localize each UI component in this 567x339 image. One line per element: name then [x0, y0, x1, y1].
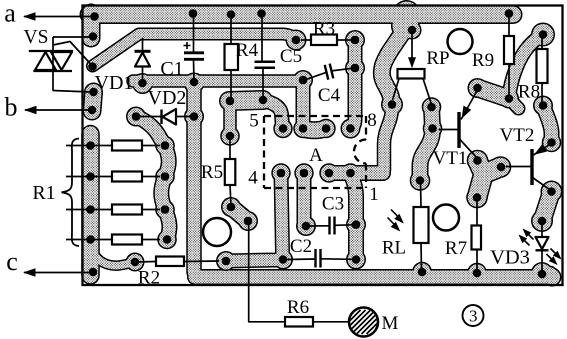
svg-text:R2: R2	[138, 268, 160, 289]
resistor R5	[229, 137, 231, 159]
svg-text:C4: C4	[318, 85, 341, 106]
resistor R4	[230, 14, 232, 44]
mounting hole	[448, 29, 473, 54]
svg-text:C3: C3	[322, 194, 344, 215]
svg-text:VT2: VT2	[500, 125, 535, 146]
svg-text:R8: R8	[518, 82, 540, 103]
photoresistor RL	[420, 182, 423, 207]
svg-text:1: 1	[369, 184, 379, 205]
capacitor C4 (tilted)	[306, 72, 327, 79]
wire RP-right / VT1-base / RL-top trace	[420, 107, 433, 181]
transistor VT2	[534, 144, 552, 156]
diode VD1	[142, 38, 144, 51]
wire IC pin4 down to C2/R2	[226, 173, 283, 261]
svg-text:8: 8	[367, 110, 377, 131]
svg-text:VD2: VD2	[148, 87, 187, 109]
wire VD2-anode / R1 right chain trace	[136, 117, 169, 240]
capacitor C3	[308, 225, 330, 227]
mounting hole	[433, 205, 459, 231]
resistor R1 element 1	[66, 145, 112, 147]
wire R8-bottom to VT2-collector trace	[543, 106, 552, 143]
terminal c wire & arrow	[24, 272, 93, 274]
svg-text:C5: C5	[280, 46, 302, 67]
op-amp/timer IC A dashed outline	[263, 116, 265, 188]
svg-text:R5: R5	[201, 162, 223, 183]
wire b-terminal pad blob	[92, 92, 94, 111]
svg-text:R7: R7	[445, 238, 467, 259]
svg-text:R6: R6	[287, 297, 309, 318]
resistor R6	[285, 317, 313, 327]
svg-text:R1: R1	[32, 182, 55, 204]
potentiometer RP	[411, 31, 413, 65]
terminal b wire & arrow	[25, 109, 92, 111]
svg-text:C2: C2	[290, 236, 312, 257]
svg-text:b: b	[5, 93, 18, 122]
svg-text:4: 4	[248, 168, 258, 189]
resistor R1 element 2	[66, 176, 112, 178]
svg-text:R3: R3	[313, 19, 335, 40]
wire VT2-emitter / VD3 blob	[542, 192, 552, 222]
resistor R1 element 3	[66, 209, 112, 211]
triac VS	[29, 50, 73, 52]
mounting hole	[203, 218, 231, 246]
svg-text:R4: R4	[236, 40, 259, 61]
wire left R1 bus + hook to R2	[81, 134, 100, 276]
capacitor C5	[261, 13, 263, 62]
solder pads	[90, 12, 99, 21]
resistor R9	[508, 15, 510, 36]
svg-text:RP: RP	[426, 48, 449, 69]
svg-text:C1: C1	[160, 58, 183, 80]
svg-text:3: 3	[469, 307, 478, 326]
brace for R1 group	[62, 139, 80, 247]
transistor VT1	[457, 112, 460, 148]
capacitor C2	[286, 258, 316, 261]
svg-text:M: M	[382, 313, 399, 334]
wire R3-right vertical to IC pin 8	[351, 40, 355, 129]
LED VD3	[541, 222, 543, 237]
diode VD2	[139, 116, 190, 118]
svg-text:a: a	[4, 0, 16, 28]
resistor R8	[541, 36, 543, 49]
svg-text:VS: VS	[24, 27, 49, 48]
wire third bus + ground net (VD1 row, long vertical, bottom bus)	[133, 80, 303, 81]
svg-text:VT1: VT1	[433, 148, 468, 169]
wire top supply bus + S power trace net	[89, 5, 513, 24]
wire R9-bottom / VT1-emitter / R8-top net	[478, 88, 510, 99]
wire R5-bottom diagonal blob	[231, 207, 248, 221]
svg-text:VD1: VD1	[95, 72, 134, 94]
PCB board border	[83, 6, 563, 286]
wire from R5 pad down to R6	[249, 222, 285, 322]
wire VT1-collector Y blob	[477, 161, 501, 198]
wire VS-gate diagonal + second bus trace	[93, 34, 297, 66]
terminal a wire & arrow	[24, 16, 94, 18]
resistor R1 element 4	[66, 239, 112, 241]
svg-text:VD3: VD3	[490, 247, 530, 269]
motor M	[349, 308, 378, 337]
capacitor C1 (electrolytic)	[193, 13, 195, 52]
svg-text:R9: R9	[472, 50, 494, 71]
circled number 3	[463, 305, 484, 326]
svg-text:A: A	[309, 145, 323, 166]
wire IC pin3 down to C3	[297, 173, 312, 225]
resistor R3	[301, 39, 311, 41]
svg-text:c: c	[6, 247, 18, 276]
resistor R7	[476, 199, 478, 226]
svg-text:5: 5	[249, 111, 259, 132]
resistor R2	[136, 261, 156, 264]
wire R4/C5 junction blob + arms to IC pin5 and R5	[229, 100, 263, 101]
svg-text:RL: RL	[382, 238, 406, 259]
